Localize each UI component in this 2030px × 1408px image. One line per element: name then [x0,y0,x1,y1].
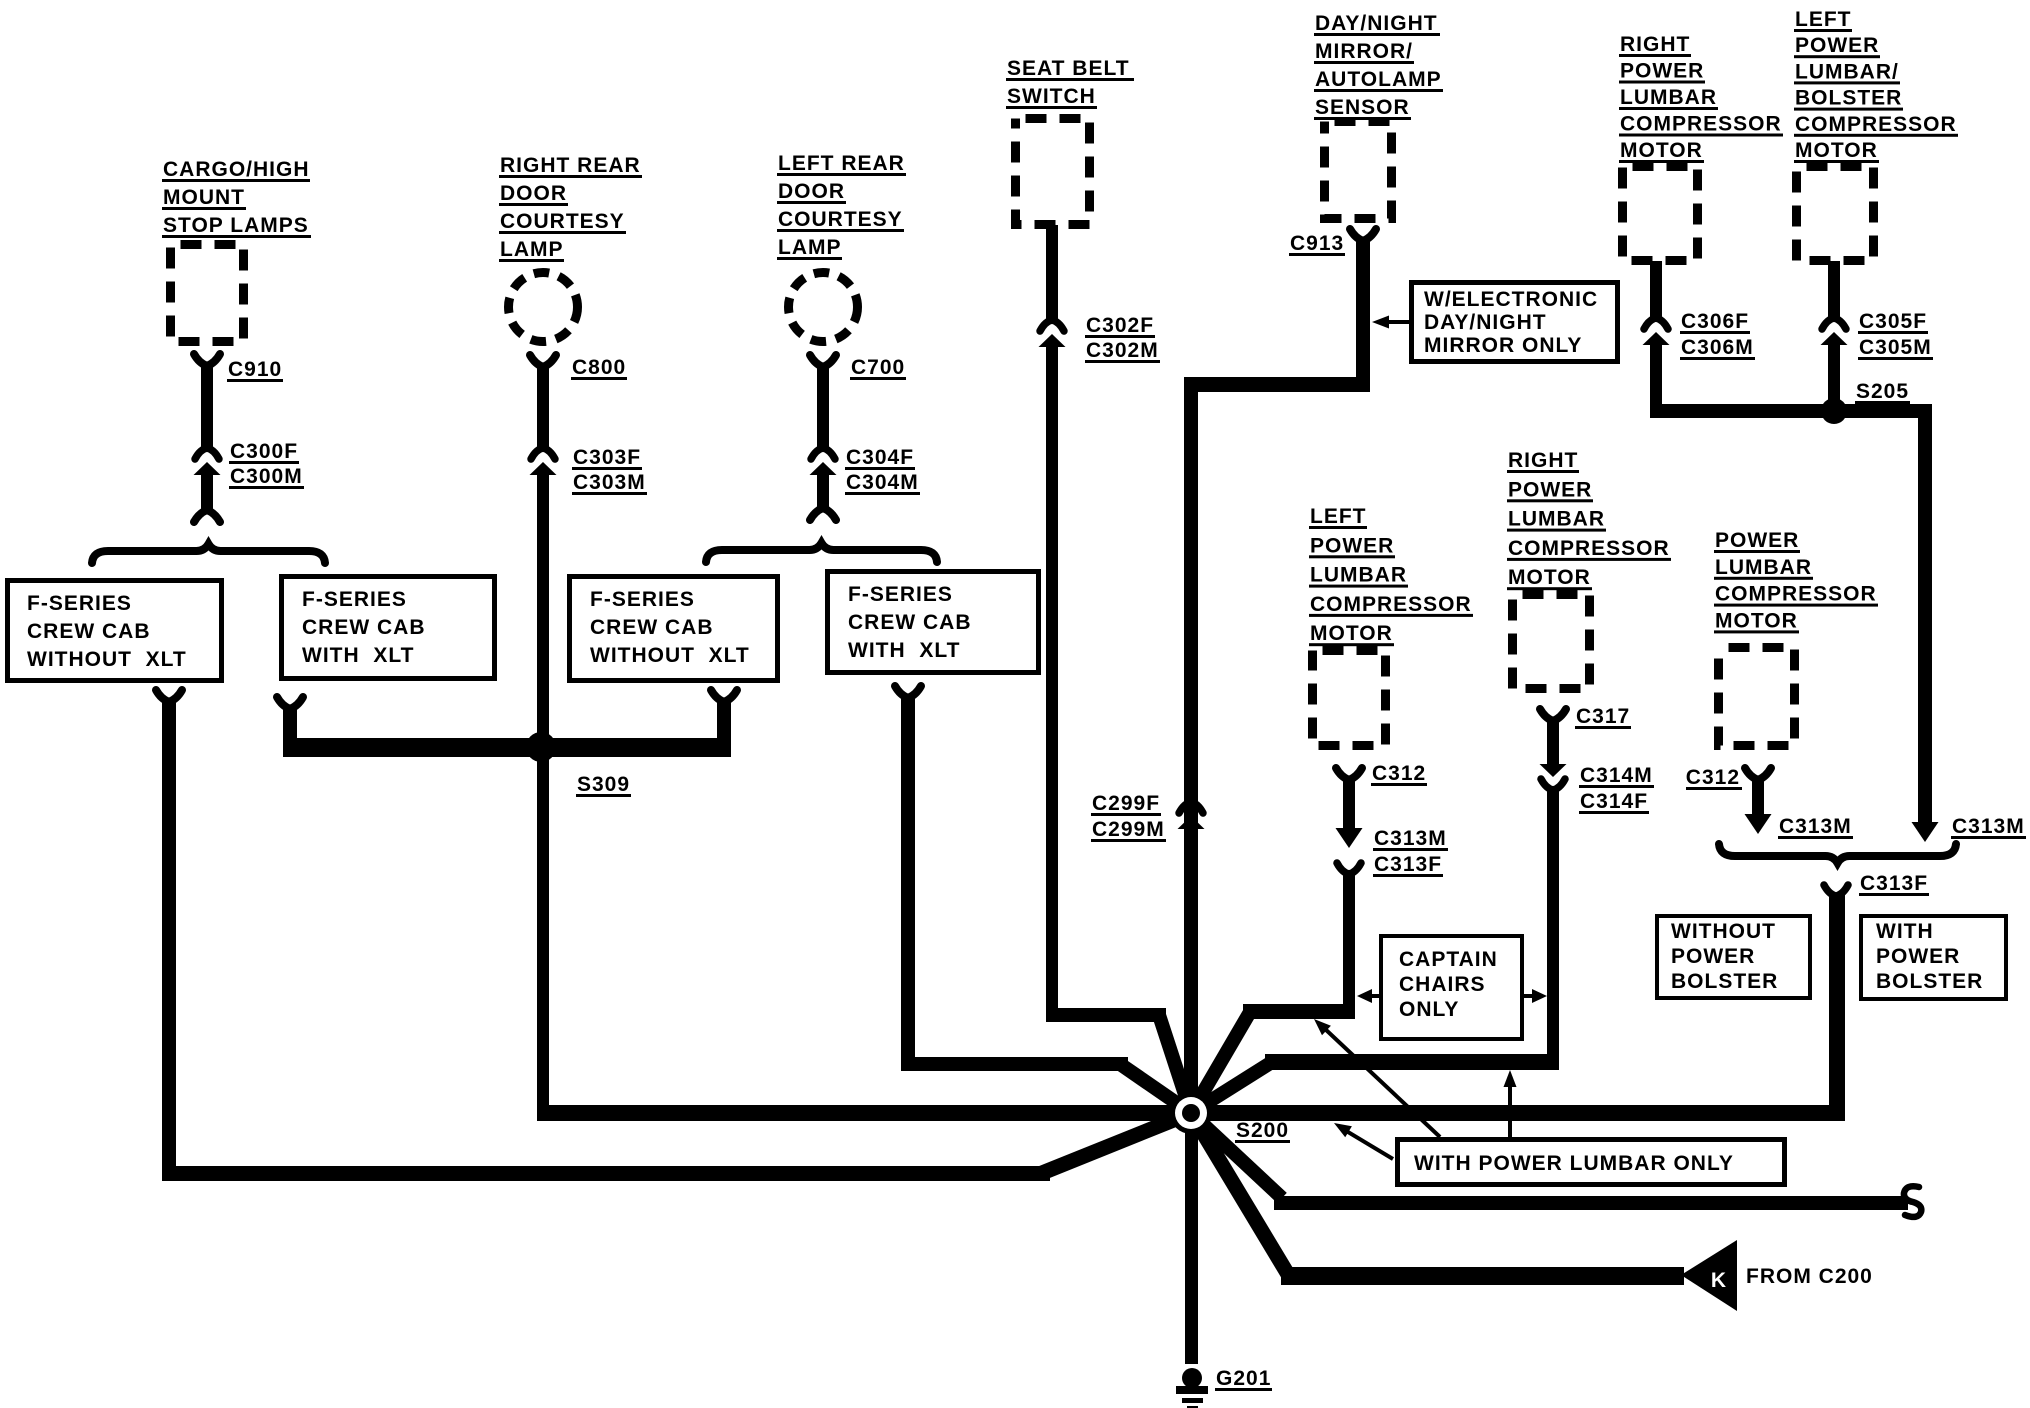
svg-text:MOTOR: MOTOR [1795,139,1878,162]
svg-text:WITHOUT XLT: WITHOUT XLT [590,644,750,667]
svg-text:C312: C312 [1686,766,1740,789]
svg-text:COMPRESSOR: COMPRESSOR [1795,113,1957,136]
note box: WITH POWER BOLSTER [1861,916,2006,999]
label C300M [229,465,304,489]
svg-text:S309: S309 [577,773,630,796]
svg-text:COURTESY: COURTESY [500,210,625,233]
label C299F [1091,792,1161,816]
splice S200 junction rings [1170,1092,1212,1134]
svg-text:STOP LAMPS: STOP LAMPS [163,214,309,237]
label C313F (center) [1373,853,1443,877]
wire S200 to FROM C200 [1191,1113,1684,1285]
svg-text:C303F: C303F [573,446,641,469]
connector C313M male half (right column) [1912,822,1939,842]
svg-text:DAY/NIGHT: DAY/NIGHT [1424,311,1547,334]
annotation leader to captain chairs right wire [1504,1070,1517,1137]
label C312 (right) [1686,766,1742,790]
svg-text:DOOR: DOOR [500,182,567,205]
svg-text:C313M: C313M [1952,815,2025,838]
label C312 (center) [1371,762,1427,786]
note box: F-SERIES CREW CAB WITHOUT XLT (1) [8,581,222,681]
svg-text:SEAT BELT: SEAT BELT [1007,57,1130,80]
connector C317 terminal [1540,709,1566,721]
label S200 [1235,1119,1290,1143]
label C302M [1085,339,1160,363]
annotation arrow to day/night wire [1372,316,1409,329]
connector C305F/C305M [1821,318,1848,345]
lamp: CARGO/HIGH MOUNT STOP LAMPS label [162,158,311,238]
svg-text:WITHOUT: WITHOUT [1671,920,1776,943]
note box: WITH POWER LUMBAR ONLY [1398,1140,1785,1185]
wire cargo lamp to C300 [201,364,213,450]
wire C302 to S200 [1046,346,1191,1113]
svg-text:CREW CAB: CREW CAB [590,616,714,639]
label C800 [571,356,627,380]
svg-text:AUTOLAMP: AUTOLAMP [1315,68,1442,91]
svg-text:C299M: C299M [1092,818,1165,841]
svg-text:C313F: C313F [1860,872,1928,895]
wire motor to C306 [1650,261,1662,320]
svg-text:LAMP: LAMP [500,238,564,261]
svg-text:C312: C312 [1372,762,1426,785]
wire C313F down to S200 bus [1829,894,1845,1121]
svg-text:WITH: WITH [1876,920,1934,943]
wire box 4 to S200 [901,696,1191,1113]
svg-text:LEFT: LEFT [1310,505,1367,528]
wire box 2 to S309 bus [283,707,731,757]
wire C913 elbow down to S200 [1184,239,1370,1113]
motor: left power lumbar compressor motor (dashed box) [1313,651,1386,746]
svg-text:C913: C913 [1290,232,1344,255]
label C304M [845,471,920,495]
svg-text:C313F: C313F [1374,853,1442,876]
svg-text:C300F: C300F [230,440,298,463]
svg-text:W/ELECTRONIC: W/ELECTRONIC [1424,288,1598,311]
svg-text:MIRROR ONLY: MIRROR ONLY [1424,334,1582,357]
svg-text:C305M: C305M [1859,336,1932,359]
switch: SEAT BELT SWITCH label [1006,57,1134,109]
wire seat belt switch to C302 [1046,225,1058,322]
connector K FROM C200 (triangle) [1681,1240,1737,1311]
svg-text:C306F: C306F [1681,310,1749,333]
svg-text:LEFT: LEFT [1795,8,1852,31]
svg-text:C910: C910 [228,358,282,381]
connector C800 terminal [530,355,556,367]
sensor: day/night mirror/autolamp sensor (dashed box) [1325,122,1392,219]
svg-text:RIGHT REAR: RIGHT REAR [500,154,641,177]
wire C305 to splice S205 [1828,344,1840,418]
label C313M (mid) [1778,815,1853,839]
note box: CAPTAIN CHAIRS ONLY [1381,936,1522,1039]
annotation arrow captain chairs left [1357,989,1379,1003]
lamp: RIGHT REAR DOOR COURTESY LAMP label [499,154,642,262]
lamp: left rear door courtesy lamp (dashed circle) [789,273,858,342]
motor: left power lumbar/bolster compressor motor (dashed box) [1797,167,1874,261]
svg-text:C800: C800 [572,356,626,379]
brace grouping F-series crew cab boxes (left) [92,544,325,563]
connector C313M male half (center) [1336,828,1363,848]
label S205 [1855,380,1910,404]
terminal below box 4 [895,686,921,698]
svg-text:DOOR: DOOR [778,180,845,203]
label C303F [572,446,642,470]
terminal end below C304M [810,508,836,520]
svg-text:F-SERIES: F-SERIES [302,588,407,611]
connector C700 terminal [810,355,836,367]
svg-text:C317: C317 [1576,705,1630,728]
wire S200 to continuation S (lower-right) [1191,1113,1908,1210]
svg-text:BOLSTER: BOLSTER [1795,87,1902,110]
svg-text:SWITCH: SWITCH [1007,85,1096,108]
svg-text:F-SERIES: F-SERIES [27,592,132,615]
svg-text:C314F: C314F [1580,790,1648,813]
svg-text:F-SERIES: F-SERIES [848,583,953,606]
connector C313F female half (bottom) [1824,885,1848,896]
svg-text:MOTOR: MOTOR [1508,566,1591,589]
wire C314F to S200 (captain chairs right) [1191,790,1559,1113]
connector C910 terminal [194,354,220,366]
annotation arrow captain chairs right [1524,989,1547,1003]
svg-text:C302F: C302F [1086,314,1154,337]
wire C303 through S309 to S200 bus [537,474,549,1121]
svg-text:MOUNT: MOUNT [163,186,245,209]
terminal below box 1 [156,690,182,702]
connector C300F/C300M [194,448,221,475]
note box: W/ELECTRONIC DAY/NIGHT MIRROR ONLY [1412,283,1618,362]
motor: right power lumbar compressor motor (dashed box, center) [1513,595,1590,689]
label G201 [1215,1367,1272,1391]
note box: F-SERIES CREW CAB WITHOUT XLT (3) [570,577,778,681]
wire box 1 to S200 [162,700,1191,1181]
svg-text:COURTESY: COURTESY [778,208,903,231]
lamp: right rear door courtesy lamp (dashed circle) [509,273,578,342]
svg-text:CHAIRS: CHAIRS [1399,973,1486,996]
splice S309 junction dot [526,732,556,762]
label C306M [1680,336,1755,360]
wire S200 down to ground G201 [1185,1113,1198,1364]
label C700 [850,356,906,380]
wire box 3 to S309 bus [717,700,731,757]
wire lamp to C303 [537,365,549,450]
svg-text:MOTOR: MOTOR [1715,609,1798,632]
motor: RIGHT POWER LUMBAR COMPRESSOR MOTOR label (center) [1507,449,1671,590]
wire lamp to C304 [817,365,829,450]
svg-text:LUMBAR: LUMBAR [1715,556,1812,579]
annotation leader to captain chairs left wire [1314,1019,1440,1137]
connector C303F/C303M [530,448,557,475]
wire C306 to bus [1650,344,1662,418]
note box: F-SERIES CREW CAB WITH XLT (2) [282,577,495,679]
note box: WITHOUT POWER BOLSTER [1657,916,1810,998]
svg-text:FROM C200: FROM C200 [1746,1265,1873,1288]
svg-text:ONLY: ONLY [1399,998,1459,1021]
svg-text:POWER: POWER [1715,529,1799,552]
brace joining C313M halves to C313F [1719,844,1956,863]
label C300F [229,440,299,464]
wire C312 to C313M (right) [1752,778,1764,814]
svg-text:S205: S205 [1856,380,1909,403]
lamp: cargo/high mount stop lamps (dashed box) [171,245,244,342]
svg-text:WITH POWER LUMBAR ONLY: WITH POWER LUMBAR ONLY [1414,1152,1734,1175]
svg-text:CARGO/HIGH: CARGO/HIGH [163,158,310,181]
svg-text:DAY/NIGHT: DAY/NIGHT [1315,12,1438,35]
label C299M [1091,818,1166,842]
terminal below box 2 [277,697,303,709]
connector C314M/C314F [1540,764,1567,790]
svg-text:C700: C700 [851,356,905,379]
lamp: LEFT REAR DOOR COURTESY LAMP label [777,152,906,260]
label C305M [1858,336,1933,360]
label C302F [1085,314,1155,338]
svg-text:C314M: C314M [1580,764,1653,787]
svg-text:WITHOUT XLT: WITHOUT XLT [27,648,187,671]
svg-text:MOTOR: MOTOR [1310,622,1393,645]
svg-text:LUMBAR: LUMBAR [1508,508,1605,531]
svg-text:C300M: C300M [230,465,303,488]
motor: power lumbar compressor motor (dashed box) [1719,648,1795,746]
svg-text:COMPRESSOR: COMPRESSOR [1508,537,1670,560]
svg-text:WITH XLT: WITH XLT [302,644,414,667]
svg-text:POWER: POWER [1620,60,1704,83]
svg-text:MOTOR: MOTOR [1620,139,1703,162]
switch: seat belt switch (dashed box) [1016,119,1090,225]
svg-text:C313M: C313M [1779,815,1852,838]
terminal below box 3 [711,690,737,702]
svg-text:C306M: C306M [1681,336,1754,359]
connector C313M male half (mid) [1745,814,1772,834]
connector C306F/C306M [1643,318,1670,345]
svg-text:COMPRESSOR: COMPRESSOR [1310,593,1472,616]
label FROM C200 [1746,1265,1873,1288]
svg-text:CREW CAB: CREW CAB [27,620,151,643]
svg-text:WITH XLT: WITH XLT [848,639,960,662]
label C313F (bottom) [1859,872,1929,896]
svg-text:BOLSTER: BOLSTER [1876,970,1983,993]
svg-text:CREW CAB: CREW CAB [848,611,972,634]
svg-text:C303M: C303M [573,471,646,494]
svg-text:C302M: C302M [1086,339,1159,362]
connector C312 terminal (center) [1336,768,1362,780]
wire below C304M [817,474,829,507]
svg-text:C305F: C305F [1859,310,1927,333]
continuation symbol S [1904,1186,1921,1217]
ground G201 symbol [1176,1368,1208,1408]
svg-text:POWER: POWER [1508,478,1592,501]
label C305F [1858,310,1928,334]
wire C313F to S200 (captain chairs left) [1191,872,1355,1113]
svg-text:RIGHT: RIGHT [1620,33,1690,56]
wire C317 to C314 [1547,719,1559,764]
svg-text:LUMBAR: LUMBAR [1310,564,1407,587]
label C317 [1575,705,1631,729]
label C303M [572,471,647,495]
label C913 [1289,232,1345,256]
brace grouping F-series crew cab boxes (middle) [706,543,937,562]
motor: right power lumbar compressor motor (dashed box) [1623,167,1698,261]
svg-text:LAMP: LAMP [778,236,842,259]
svg-text:POWER: POWER [1310,534,1394,557]
svg-text:K: K [1711,1269,1727,1292]
svg-text:C313M: C313M [1374,827,1447,850]
svg-text:MIRROR/: MIRROR/ [1315,40,1413,63]
wire main bus S309 to S200 to C313F riser [537,1105,1845,1121]
svg-text:BOLSTER: BOLSTER [1671,970,1778,993]
connector C302F/C302M [1039,320,1066,347]
note box: F-SERIES CREW CAB WITH XLT (4) [828,572,1039,673]
connector C299F/C299M [1178,802,1205,829]
label C313M (center) [1373,827,1448,851]
wire below C300M [201,474,213,509]
connector C304F/C304M [810,448,837,475]
svg-text:RIGHT: RIGHT [1508,449,1578,472]
label C910 [227,358,283,382]
motor: LEFT POWER LUMBAR COMPRESSOR MOTOR label (center) [1309,505,1473,646]
svg-text:LUMBAR/: LUMBAR/ [1795,60,1899,83]
svg-text:POWER: POWER [1671,945,1755,968]
label C314M [1579,764,1654,788]
svg-text:C299F: C299F [1092,792,1160,815]
annotation leader to main bus [1334,1123,1393,1159]
svg-text:LEFT REAR: LEFT REAR [778,152,905,175]
label C313M (right) [1951,815,2026,839]
motor: LEFT POWER LUMBAR/BOLSTER COMPRESSOR MOTOR label [1794,8,1958,163]
svg-text:POWER: POWER [1876,945,1960,968]
svg-text:CAPTAIN: CAPTAIN [1399,948,1498,971]
label C306F [1680,310,1750,334]
label C304F [845,446,915,470]
svg-text:S200: S200 [1236,1119,1289,1142]
svg-text:C304M: C304M [846,471,919,494]
wire bus S205 to right edge down to C313M [1650,404,1932,824]
svg-text:COMPRESSOR: COMPRESSOR [1715,583,1877,606]
label C314F [1579,790,1649,814]
svg-text:C304F: C304F [846,446,914,469]
connector C312 terminal (right) [1745,768,1771,780]
svg-text:POWER: POWER [1795,34,1879,57]
splice S205 junction dot [1821,398,1847,424]
svg-text:COMPRESSOR: COMPRESSOR [1620,113,1782,136]
svg-text:F-SERIES: F-SERIES [590,588,695,611]
svg-text:SENSOR: SENSOR [1315,96,1410,119]
terminal end below C300M [194,510,220,522]
svg-text:CREW CAB: CREW CAB [302,616,426,639]
wire C312 to C313 [1343,778,1355,828]
motor: RIGHT POWER LUMBAR COMPRESSOR MOTOR label (top) [1619,33,1783,163]
motor: POWER LUMBAR COMPRESSOR MOTOR label [1714,529,1878,633]
connector C313F female half (center) [1337,863,1361,874]
label S309 [576,773,631,797]
wire motor to C305 [1828,261,1840,320]
svg-text:G201: G201 [1216,1367,1271,1390]
connector C913 terminal [1350,229,1376,241]
sensor: DAY/NIGHT MIRROR/AUTOLAMP SENSOR label [1314,12,1443,120]
svg-text:LUMBAR: LUMBAR [1620,86,1717,109]
